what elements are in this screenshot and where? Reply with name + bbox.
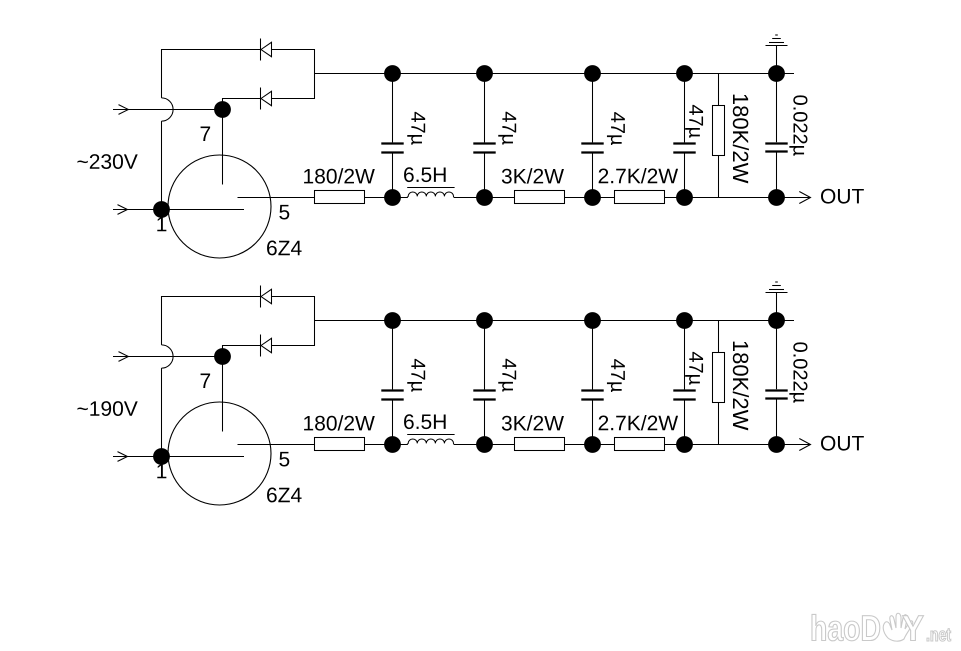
label input voltage ~230V (circuit 1) <box>77 154 137 169</box>
wire left vertical lower (circuit 1) <box>161 121 163 209</box>
value label 47µ #4 rotated (circuit 2) <box>685 352 703 385</box>
node 2J junction dot rail-C3 (circuit 2) <box>584 436 601 453</box>
label input voltage ~190V (circuit 2) <box>77 401 137 416</box>
diode D12 upper rectifier plate (circuit 2) <box>261 286 272 308</box>
output arrow OUT (circuit 1) <box>799 192 810 204</box>
value label 47µ #1 rotated (circuit 2) <box>407 359 425 392</box>
node 2G junction dot bus-C5/ground (circuit 2) <box>768 312 785 329</box>
capacitor C22 47µ (circuit 2) <box>473 321 495 445</box>
pin number 7 (circuit 1) <box>201 127 211 141</box>
inductor L1 overline (circuit 1) <box>407 187 454 189</box>
value label 47µ #3 rotated (circuit 1) <box>607 112 625 145</box>
capacitor C15 0.022µ (circuit 1) <box>765 74 787 198</box>
wire left vertical upper (circuit 2) <box>161 296 163 345</box>
ground symbol (circuit 1) <box>766 35 788 74</box>
node 1K junction dot rail-C4 (circuit 1) <box>676 189 693 206</box>
wire second diode branch (circuit 1) <box>223 99 315 110</box>
value label 47µ #3 rotated (circuit 2) <box>607 359 625 392</box>
input wire lower with arrow (circuit 2) <box>113 452 244 462</box>
value label 2.7K/2W (circuit 2) <box>599 415 678 430</box>
node 1D junction dot bus-C2 (circuit 1) <box>476 65 493 82</box>
wire hop over input (circuit 1) <box>162 98 174 121</box>
diode D11 upper rectifier plate (circuit 1) <box>261 39 272 61</box>
value label 2.7K/2W (circuit 1) <box>599 168 678 183</box>
node 1F junction dot bus-C4 (circuit 1) <box>676 65 693 82</box>
value label 47µ #1 rotated (circuit 1) <box>407 112 425 145</box>
input wire lower with arrow (circuit 1) <box>113 205 244 215</box>
node 2K junction dot rail-C4 (circuit 2) <box>676 436 693 453</box>
value label 6.5H (circuit 1) <box>404 167 446 182</box>
diode D21 lower rectifier plate (circuit 1) <box>261 88 272 110</box>
ground symbol (circuit 2) <box>766 282 788 321</box>
output rail right of inductor (circuit 1) <box>454 197 810 199</box>
wire HT bus (circuit 1) <box>315 73 795 75</box>
capacitor C24 47µ (circuit 2) <box>673 321 695 445</box>
capacitor C25 0.022µ (circuit 2) <box>765 321 787 445</box>
node 1C junction dot bus-C1 (circuit 1) <box>384 65 401 82</box>
node 1I junction dot rail-C2 (circuit 1) <box>476 189 493 206</box>
pin number 7 (circuit 2) <box>201 374 211 388</box>
resistor R12 3K/2W (circuit 1) <box>515 191 565 204</box>
node 2F junction dot bus-C4 (circuit 2) <box>676 312 693 329</box>
watermark haoDIY.net <box>812 613 951 641</box>
capacitor C11 47µ (circuit 1) <box>381 74 403 198</box>
wire hop over input (circuit 2) <box>162 345 174 368</box>
inductor L1 6.5H (circuit 1) <box>407 192 454 198</box>
capacitor C14 47µ (circuit 1) <box>673 74 695 198</box>
value label 47µ #4 rotated (circuit 1) <box>685 105 703 138</box>
resistor R23 2.7K/2W (circuit 2) <box>615 438 665 451</box>
node 1H junction dot rail-C1 (circuit 1) <box>384 189 401 206</box>
capacitor C13 47µ (circuit 1) <box>581 74 603 198</box>
wire second diode branch (circuit 2) <box>223 346 315 357</box>
tube designator 6Z4 (circuit 1) <box>267 241 302 256</box>
resistor R14 180K/2W vertical (circuit 1) <box>713 74 725 198</box>
value label 180/2W (circuit 1) <box>304 168 375 183</box>
tube V2 6Z4 envelope (circuit 2) <box>168 402 271 505</box>
resistor R24 180K/2W vertical (circuit 2) <box>713 321 725 445</box>
node 1G junction dot bus-C5/ground (circuit 1) <box>768 65 785 82</box>
value label 0.022µ rotated (circuit 2) <box>789 342 807 402</box>
node 2B junction dot pin1 input junction (circuit 2) <box>153 448 170 465</box>
diode D22 lower rectifier plate (circuit 2) <box>261 335 272 357</box>
node 2L junction dot rail-C5/OUT (circuit 2) <box>768 436 785 453</box>
tube pin 5 lead / output rail left (circuit 2) <box>238 444 408 446</box>
resistor R21 180/2W (circuit 2) <box>315 438 365 451</box>
capacitor C12 47µ (circuit 1) <box>473 74 495 198</box>
inductor L2 overline (circuit 2) <box>407 434 454 436</box>
node 1E junction dot bus-C3 (circuit 1) <box>584 65 601 82</box>
wire top loop horizontal (circuit 2) <box>161 296 315 298</box>
node 2A junction dot pin7/diode junction (circuit 2) <box>214 348 231 365</box>
node 1A junction dot pin7/diode junction (circuit 1) <box>214 101 231 118</box>
input wire upper with arrow (circuit 1) <box>113 105 223 115</box>
value label 47µ #2 rotated (circuit 2) <box>498 359 516 392</box>
value label 3K/2W (circuit 2) <box>502 415 564 430</box>
value label 180K/2W rotated (circuit 1) <box>733 95 749 184</box>
pin number 1 (circuit 2) <box>157 464 166 478</box>
output rail right of inductor (circuit 2) <box>454 444 810 446</box>
value label 47µ #2 rotated (circuit 1) <box>498 112 516 145</box>
output arrow OUT (circuit 2) <box>799 439 810 451</box>
resistor R13 2.7K/2W (circuit 1) <box>615 191 665 204</box>
value label 6.5H (circuit 2) <box>404 414 446 429</box>
tube pin 5 lead / output rail left (circuit 1) <box>238 197 408 199</box>
node 2E junction dot bus-C3 (circuit 2) <box>584 312 601 329</box>
resistor R22 3K/2W (circuit 2) <box>515 438 565 451</box>
label OUT (circuit 2) <box>821 436 864 451</box>
tube pin 7 lead (circuit 2) <box>222 357 224 432</box>
value label 0.022µ rotated (circuit 1) <box>789 95 807 155</box>
wire right vertical of loop (circuit 1) <box>314 49 316 99</box>
pin number 5 (circuit 1) <box>279 205 289 220</box>
node 1J junction dot rail-C3 (circuit 1) <box>584 189 601 206</box>
value label 180/2W (circuit 2) <box>304 415 375 430</box>
node 1L junction dot rail-C5/OUT (circuit 1) <box>768 189 785 206</box>
capacitor C23 47µ (circuit 2) <box>581 321 603 445</box>
wire HT bus (circuit 2) <box>315 320 795 322</box>
value label 180K/2W rotated (circuit 2) <box>733 342 749 431</box>
node 2H junction dot rail-C1 (circuit 2) <box>384 436 401 453</box>
inductor L2 6.5H (circuit 2) <box>407 439 454 445</box>
tube designator 6Z4 (circuit 2) <box>267 488 302 503</box>
node 1B junction dot pin1 input junction (circuit 1) <box>153 201 170 218</box>
tube pin 7 lead (circuit 1) <box>222 110 224 185</box>
wire left vertical upper (circuit 1) <box>161 49 163 98</box>
capacitor C21 47µ (circuit 2) <box>381 321 403 445</box>
node 2I junction dot rail-C2 (circuit 2) <box>476 436 493 453</box>
label OUT (circuit 1) <box>821 189 864 204</box>
node 2C junction dot bus-C1 (circuit 2) <box>384 312 401 329</box>
pin number 1 (circuit 1) <box>157 217 166 231</box>
tube V1 6Z4 envelope (circuit 1) <box>168 155 271 258</box>
input wire upper with arrow (circuit 2) <box>113 352 223 362</box>
wire right vertical of loop (circuit 2) <box>314 296 316 346</box>
value label 3K/2W (circuit 1) <box>502 168 564 183</box>
node 2D junction dot bus-C2 (circuit 2) <box>476 312 493 329</box>
wire left vertical lower (circuit 2) <box>161 368 163 456</box>
pin number 5 (circuit 2) <box>279 452 289 467</box>
wire top loop horizontal (circuit 1) <box>161 49 315 51</box>
resistor R11 180/2W (circuit 1) <box>315 191 365 204</box>
